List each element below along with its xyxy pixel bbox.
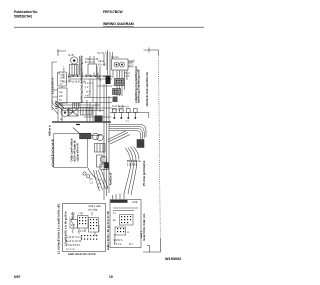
svg-text:cIrc dIag: cIrc dIag <box>88 209 98 212</box>
svg-text:P5 bk W rn: P5 bk W rn <box>127 159 141 163</box>
svg-text:sUrfacE UnIt sEctIOn bk: sUrfacE UnIt sEctIOn bk <box>145 72 149 107</box>
svg-text:bakE sELEctOr cIrcUIt: bakE sELEctOr cIrcUIt <box>68 252 96 256</box>
svg-text:nI: nI <box>58 72 60 75</box>
svg-text:FEF317BCW: FEF317BCW <box>103 10 123 14</box>
svg-text:In sW rn b: In sW rn b <box>118 106 130 109</box>
svg-text:1 2 3: 1 2 3 <box>69 217 75 220</box>
svg-text:rn b: rn b <box>86 91 91 94</box>
svg-text:1 2 3: 1 2 3 <box>124 75 130 78</box>
svg-text:ovn: ovn <box>59 91 64 94</box>
svg-text:Ec: Ec <box>113 219 117 222</box>
svg-text:thErm b: thErm b <box>48 125 52 136</box>
svg-text:1 2: 1 2 <box>85 86 89 89</box>
svg-text:kTv bn r: kTv bn r <box>63 66 66 75</box>
svg-text:6/97: 6/97 <box>14 275 21 279</box>
svg-text:cLEan sW rn W: cLEan sW rn W <box>77 143 80 162</box>
svg-text:bkWrbUgyOrbkWbUgyOrW: bkWrbUgyOrbkWbUgyOrW <box>137 69 141 103</box>
svg-text:sW: sW <box>71 224 75 227</box>
svg-text:P2: P2 <box>98 178 102 182</box>
svg-text:1 2 3 4: 1 2 3 4 <box>78 230 86 233</box>
svg-text:Publication No.: Publication No. <box>14 10 38 14</box>
svg-text:5995267941: 5995267941 <box>14 15 33 19</box>
svg-text:P1: P1 <box>90 177 94 181</box>
svg-text:cOnsOLE frOnt bk W: cOnsOLE frOnt bk W <box>51 139 55 167</box>
svg-text:bakE n brOIL r bU gy W rn kT v: bakE n brOIL r bU gy W rn kT vB <box>107 211 110 250</box>
svg-text:3 4: 3 4 <box>98 182 102 186</box>
svg-text:WIRING DIAGRAM: WIRING DIAGRAM <box>103 22 134 26</box>
svg-text:b r: b r <box>113 212 116 215</box>
svg-text:rIl vB: rIl vB <box>68 54 74 57</box>
svg-text:rn: rn <box>127 231 130 234</box>
svg-text:b r n v k: b r n v k <box>66 248 75 251</box>
svg-text:b r: b r <box>126 120 129 123</box>
svg-text:k L m n: k L m n <box>85 82 93 85</box>
svg-text:cLk tIm: cLk tIm <box>111 56 119 59</box>
svg-text:nb: nb <box>60 118 63 121</box>
svg-text:Ib kT rn v: Ib kT rn v <box>85 61 96 64</box>
svg-text:nOtE: nOtE <box>132 201 138 204</box>
svg-text:Lk sW: Lk sW <box>54 100 58 109</box>
svg-text:rR rF LF Lr: rR rF LF Lr <box>112 109 124 112</box>
svg-text:bkWrbUgyOryLbkWrbUgyWrbUgyOrW: bkWrbUgyOryLbkWrbUgyWrbUgyOrW <box>79 55 83 103</box>
svg-text:bakE brL: bakE brL <box>113 233 117 244</box>
svg-text:kTv nB: kTv nB <box>98 64 106 67</box>
svg-text:L1 cIrcUIt rn: L1 cIrcUIt rn <box>51 77 55 94</box>
svg-text:sW: sW <box>59 95 63 98</box>
svg-text:W193002: W193002 <box>165 257 181 261</box>
svg-text:nOtE 2: nOtE 2 <box>140 230 143 238</box>
svg-text:1k 2r 3v 4n 5b: 1k 2r 3v 4n 5b <box>66 240 82 243</box>
svg-text:b r: b r <box>98 185 101 189</box>
svg-text:v n: v n <box>78 212 82 215</box>
svg-text:W r: W r <box>129 243 133 246</box>
svg-text:19: 19 <box>109 275 113 279</box>
svg-text:L1 sUrfacE UnIts L2 n bakE brO: L1 sUrfacE UnIts L2 n bakE brOIL sEL <box>57 203 61 254</box>
svg-text:P1 P2 P3 P4: P1 P2 P3 P4 <box>66 244 80 247</box>
svg-text:P5 cOnn (grOUnd) bk: P5 cOnn (grOUnd) bk <box>143 160 146 186</box>
svg-text:*L1 *N *L2: *L1 *N *L2 <box>97 52 109 55</box>
svg-text:1 2 3 4 5: 1 2 3 4 5 <box>127 163 138 167</box>
svg-text:1 2: 1 2 <box>90 181 94 185</box>
svg-text:b r n: b r n <box>129 66 134 69</box>
svg-text:harnEss W: harnEss W <box>110 172 113 185</box>
svg-text:rn bk W r bU gy: rn bk W r bU gy <box>66 236 83 239</box>
svg-text:v kT: v kT <box>85 95 90 98</box>
